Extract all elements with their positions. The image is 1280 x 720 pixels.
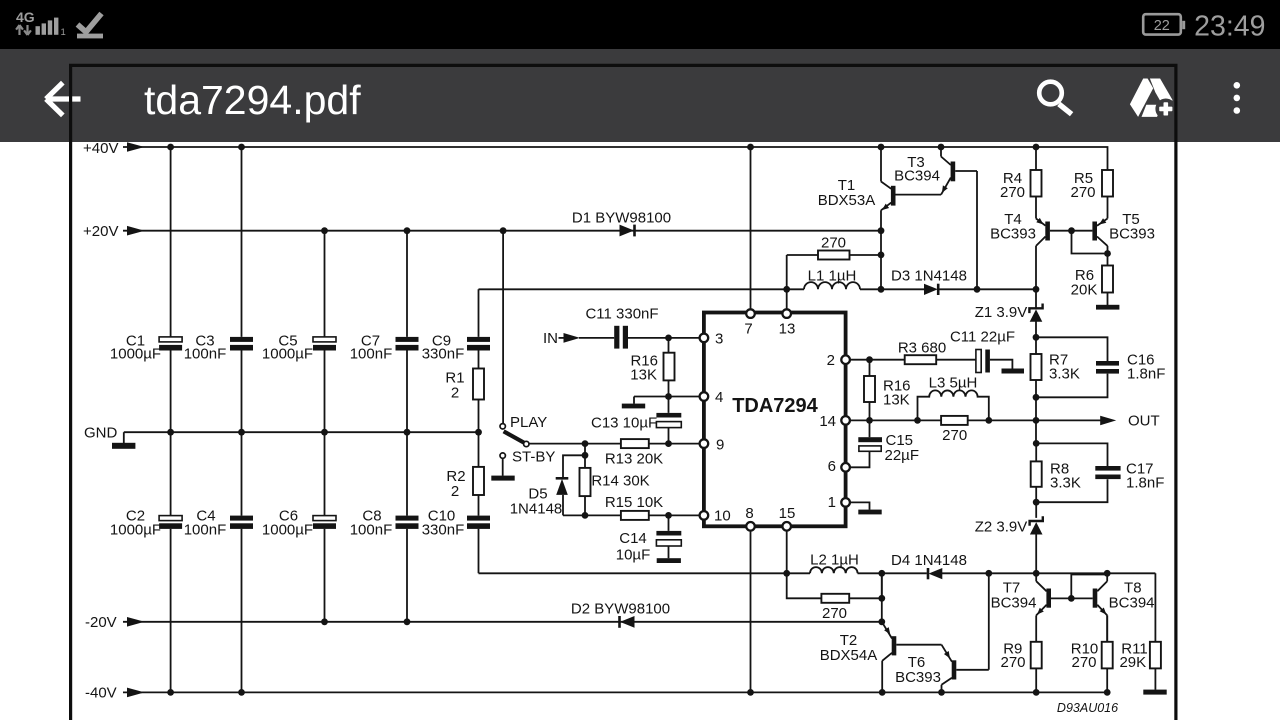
- toolbar back arrow: [46, 83, 81, 116]
- svg-text:270: 270: [1070, 184, 1095, 201]
- node out/L3 right: [985, 417, 992, 424]
- svg-text:8: 8: [745, 505, 753, 522]
- svg-text:1: 1: [61, 27, 66, 38]
- wire column R2 C10: [478, 432, 480, 573]
- svg-text:-40V: -40V: [85, 684, 117, 701]
- node D5 top: [582, 452, 589, 459]
- node +20V/C7: [404, 227, 411, 234]
- node -40V/C4: [238, 689, 245, 696]
- svg-text:D2 BYW98100: D2 BYW98100: [571, 601, 670, 618]
- svg-text:22: 22: [1154, 18, 1170, 34]
- diode D4 1N4148: [928, 568, 942, 579]
- node D3/Z1: [1033, 286, 1040, 293]
- resistor 270 top: [818, 251, 850, 260]
- svg-text:D93AU016: D93AU016: [1057, 701, 1118, 715]
- svg-text:C11 22µF: C11 22µF: [950, 329, 1015, 346]
- wire column C1: [170, 147, 172, 432]
- pin 2: [841, 355, 850, 364]
- node -20V/C6: [321, 618, 328, 625]
- pin 4: [700, 392, 709, 401]
- svg-text:D1 BYW98100: D1 BYW98100: [572, 210, 671, 227]
- pin 3: [700, 334, 709, 343]
- svg-text:9: 9: [716, 437, 724, 454]
- svg-text:6: 6: [828, 458, 836, 475]
- capacitor C15 22uF: [850, 420, 870, 467]
- svg-text:R15 10K: R15 10K: [605, 494, 663, 511]
- node out/R16: [866, 417, 873, 424]
- svg-text:2: 2: [451, 384, 459, 401]
- -20V arrow: [127, 617, 145, 627]
- wire stby line y515: [563, 514, 700, 516]
- svg-text:23:49: 23:49: [1194, 11, 1265, 43]
- pin 13: [782, 309, 791, 318]
- svg-text:100nF: 100nF: [350, 346, 393, 363]
- svg-text:C13 10µF: C13 10µF: [591, 415, 657, 432]
- wire column C8: [406, 432, 408, 622]
- svg-text:14: 14: [819, 413, 836, 430]
- toolbar: [0, 49, 1280, 142]
- node y573/pin15: [783, 570, 790, 577]
- svg-text:330nF: 330nF: [422, 346, 465, 363]
- svg-text:13: 13: [779, 320, 796, 337]
- node +40V/T1: [878, 144, 885, 151]
- resistor R1: [473, 369, 484, 400]
- node D3/T3 base: [974, 286, 981, 293]
- svg-text:10: 10: [714, 507, 731, 524]
- node -20V/T2 emitter: [878, 618, 885, 625]
- toolbar drive add icon: [1130, 79, 1176, 120]
- node T2/270: [878, 595, 885, 602]
- wire column C6: [324, 432, 326, 622]
- capacitor C16 1.8nF: [1036, 337, 1108, 397]
- wire switch feed: [502, 231, 504, 424]
- node y573/Z2: [1033, 570, 1040, 577]
- capacitor C5: [313, 337, 336, 342]
- resistor R16 13K input: [664, 353, 675, 381]
- svg-text:100nF: 100nF: [350, 521, 393, 538]
- transistor T7 BC394: [1036, 573, 1051, 642]
- node +40V/R4: [1033, 144, 1040, 151]
- svg-text:4: 4: [715, 389, 723, 406]
- schematic frame border: [69, 64, 1178, 720]
- wire pin4 line: [634, 396, 700, 398]
- transistor T1 BDX53A: [881, 147, 896, 231]
- status bar: [0, 0, 1280, 49]
- svg-text:1000µF: 1000µF: [262, 346, 313, 363]
- svg-text:BDX54A: BDX54A: [820, 647, 878, 664]
- svg-text:BDX53A: BDX53A: [818, 192, 876, 209]
- capacitor C6: [313, 516, 336, 521]
- svg-text:270: 270: [1071, 654, 1096, 671]
- svg-text:1000µF: 1000µF: [262, 521, 313, 538]
- svg-text:2: 2: [451, 483, 459, 500]
- inductor L3 5uH: [918, 390, 989, 420]
- pin 9: [700, 439, 709, 448]
- resistor R2: [473, 467, 484, 495]
- wire T7 T8 bases: [1051, 575, 1107, 599]
- svg-text:330nF: 330nF: [422, 521, 465, 538]
- node T4 base tie: [1068, 227, 1075, 234]
- resistor R5 270: [1102, 170, 1113, 197]
- node out/R7: [1033, 417, 1040, 424]
- pin 1: [841, 498, 850, 507]
- node R7/C16 bottom: [1033, 394, 1040, 401]
- capacitor C13 10uF: [668, 397, 670, 444]
- switch PLAY contact: [500, 424, 505, 429]
- diode D3 1N4148: [924, 284, 938, 295]
- wire pin7 to +40V: [750, 147, 752, 309]
- +40V arrow: [127, 142, 145, 152]
- node out/L3 left: [914, 417, 921, 424]
- zener Z2 3.9V: [1030, 516, 1043, 573]
- node +40V/T3: [938, 144, 945, 151]
- status icon signal bars: [36, 18, 59, 35]
- svg-text:3: 3: [715, 331, 723, 348]
- capacitor C10: [467, 516, 490, 521]
- resistor R3 680: [905, 355, 937, 364]
- wire R7 column: [1035, 337, 1037, 443]
- transistor T6 BC393: [942, 573, 989, 692]
- wire column C5: [324, 231, 326, 433]
- svg-text:BC393: BC393: [1109, 225, 1155, 242]
- switch lever: [504, 431, 524, 442]
- resistor R7 3.3K: [1031, 354, 1042, 380]
- node y573/T2: [878, 570, 885, 577]
- node -40V/R10: [1104, 689, 1111, 696]
- diode D2 BYW98100: [620, 616, 635, 628]
- node pin3/R16: [665, 335, 672, 342]
- wire out line: [850, 419, 1101, 421]
- node +20V/switch: [500, 227, 507, 234]
- OUT arrow: [1100, 416, 1116, 426]
- -20V rail wire: [123, 621, 882, 623]
- node pin2/R16: [866, 356, 873, 363]
- svg-text:270: 270: [1000, 654, 1025, 671]
- node T1/270: [878, 252, 885, 259]
- resistor R16 13K feedback: [869, 360, 871, 421]
- switch ST-BY contact: [500, 453, 505, 458]
- svg-text:ST-BY: ST-BY: [512, 449, 555, 466]
- svg-text:TDA7294: TDA7294: [732, 395, 818, 417]
- wire pin8 down: [750, 531, 752, 693]
- IC TDA7294 body: [704, 313, 846, 527]
- diode D5 1N4148: [556, 478, 569, 495]
- ground symbol R11: [1143, 690, 1166, 695]
- svg-text:L1 1µH: L1 1µH: [808, 268, 857, 285]
- node GND/C3: [238, 429, 245, 436]
- inductor L2 1uH: [810, 567, 858, 573]
- svg-text:10µF: 10µF: [616, 546, 651, 563]
- svg-text:R3 680: R3 680: [898, 340, 946, 357]
- svg-text:100nF: 100nF: [184, 346, 227, 363]
- transistor T3 BC394: [941, 147, 977, 289]
- node +40V/C3: [238, 144, 245, 151]
- svg-text:D4 1N4148: D4 1N4148: [891, 552, 967, 569]
- wire C14 stem: [668, 515, 670, 558]
- svg-text:100nF: 100nF: [184, 521, 227, 538]
- svg-text:4G: 4G: [16, 9, 35, 25]
- wire C11 to ground: [990, 360, 1013, 369]
- svg-text:BC394: BC394: [991, 595, 1037, 612]
- -40V arrow: [127, 688, 145, 698]
- svg-text:7: 7: [744, 320, 752, 337]
- svg-text:Z2 3.9V: Z2 3.9V: [975, 519, 1028, 536]
- +20V arrow: [127, 226, 145, 236]
- node GND/R1R2: [475, 429, 482, 436]
- wire 270 top: [787, 254, 881, 256]
- ground symbol ST-BY: [491, 476, 514, 481]
- +40V rail wire: [123, 147, 1108, 170]
- input arrow: [559, 337, 565, 339]
- node -40V/T6: [938, 689, 945, 696]
- svg-text:1N4148: 1N4148: [510, 500, 563, 517]
- inductor L1 1uH: [804, 282, 860, 289]
- svg-text:270: 270: [1000, 184, 1025, 201]
- node -40V/pin8: [747, 689, 754, 696]
- toolbar search icon: [1039, 82, 1062, 105]
- node T5 collector R6: [1104, 250, 1111, 257]
- wire R14 branch: [584, 444, 586, 516]
- svg-text:L2 1µH: L2 1µH: [810, 551, 859, 568]
- svg-text:270: 270: [821, 235, 846, 252]
- svg-text:3.3K: 3.3K: [1049, 366, 1080, 383]
- wire T1 base to T3 emitter: [896, 194, 942, 196]
- svg-text:BC394: BC394: [894, 167, 940, 184]
- node y573/T8: [1104, 570, 1111, 577]
- svg-text:22µF: 22µF: [885, 447, 920, 464]
- resistor R9 270: [1031, 642, 1042, 669]
- status icon checkmark download: [78, 14, 102, 33]
- wire pin13 up: [786, 255, 788, 309]
- node GND/C1: [167, 429, 174, 436]
- wire bootstrap line y289: [479, 288, 1037, 290]
- node R8 bottom: [1033, 499, 1040, 506]
- GND rail wire: [124, 431, 479, 433]
- capacitor C9: [467, 337, 490, 342]
- resistor 270 zobel: [941, 416, 968, 425]
- node y573/T6 base: [985, 570, 992, 577]
- svg-text:BC394: BC394: [1109, 595, 1155, 612]
- capacitor C17 1.8nF: [1036, 443, 1107, 502]
- ground symbol at GND label: [123, 432, 125, 443]
- ground symbol C14: [657, 558, 681, 563]
- +20V rail wire: [123, 230, 881, 232]
- wire ST-BY to ground: [502, 458, 504, 476]
- capacitor C8: [396, 516, 419, 521]
- node +20V/C5: [321, 227, 328, 234]
- svg-text:1.8nF: 1.8nF: [1127, 366, 1165, 383]
- node -20V/C8: [404, 618, 411, 625]
- wire D5 branch: [563, 455, 585, 515]
- ground symbol pin4: [633, 397, 635, 404]
- svg-text:13K: 13K: [630, 367, 657, 384]
- resistor R4 270: [1035, 147, 1037, 219]
- ground symbol C11: [1002, 369, 1025, 374]
- toolbar overflow menu dots: [1234, 82, 1241, 114]
- svg-text:BC393: BC393: [990, 225, 1036, 242]
- svg-text:BC393: BC393: [895, 669, 941, 686]
- svg-text:29K: 29K: [1119, 654, 1146, 671]
- node bootstrap/pin13: [783, 286, 790, 293]
- resistor R13 20K: [621, 439, 649, 448]
- node +40V/pin7: [747, 144, 754, 151]
- wire column C7: [406, 231, 408, 433]
- svg-text:2: 2: [827, 352, 835, 369]
- node stby/C14: [665, 512, 672, 519]
- wire pin15 down: [786, 531, 788, 574]
- svg-text:15: 15: [779, 505, 796, 522]
- capacitor C4: [230, 516, 253, 521]
- svg-text:PLAY: PLAY: [510, 414, 547, 431]
- wire T4 T5 bases: [1050, 231, 1108, 254]
- svg-text:270: 270: [822, 605, 847, 622]
- pin 8: [746, 522, 755, 531]
- capacitor C7: [396, 337, 419, 342]
- node GND/C7: [404, 429, 411, 436]
- status icon data arrows: [16, 25, 31, 35]
- svg-text:Z1 3.9V: Z1 3.9V: [975, 304, 1028, 321]
- wire T2 column: [881, 573, 883, 622]
- node GND/C5: [321, 429, 328, 436]
- resistor R8 3.3K: [1031, 461, 1042, 486]
- resistor R14 30K: [580, 468, 591, 496]
- svg-text:+20V: +20V: [83, 223, 118, 240]
- capacitor C2: [159, 516, 182, 521]
- node stby/R14: [582, 512, 589, 519]
- svg-text:R14 30K: R14 30K: [591, 472, 649, 489]
- svg-text:+40V: +40V: [83, 140, 118, 157]
- wire column C3: [241, 147, 243, 432]
- resistor R6 20K: [1107, 254, 1109, 306]
- node bootstrap/T1: [878, 286, 885, 293]
- wire mute line y443: [529, 443, 700, 445]
- pin 15: [782, 522, 791, 531]
- wire pin2 line: [850, 359, 976, 361]
- node +20V/T1 emitter: [878, 227, 885, 234]
- node -40V/C2: [167, 689, 174, 696]
- svg-text:D3 1N4148: D3 1N4148: [891, 268, 967, 285]
- node T7 base tie: [1068, 595, 1075, 602]
- node -40V/R9: [1033, 689, 1040, 696]
- svg-text:3.3K: 3.3K: [1050, 475, 1081, 492]
- capacitor C14 10uF: [656, 531, 681, 536]
- svg-text:1000µF: 1000µF: [110, 346, 161, 363]
- transistor T2 BDX54A: [882, 622, 897, 693]
- wire R8 column: [1035, 443, 1037, 518]
- node -40V/T2: [879, 689, 886, 696]
- svg-text:tda7294.pdf: tda7294.pdf: [144, 77, 361, 123]
- wire pin1 to ground: [850, 502, 870, 509]
- pin 10: [700, 511, 709, 520]
- diode D1 BYW98100: [620, 225, 635, 237]
- wire column C9 R1: [478, 289, 480, 432]
- svg-text:C14: C14: [619, 530, 647, 547]
- svg-text:GND: GND: [84, 424, 118, 441]
- svg-text:1: 1: [828, 494, 836, 511]
- wire column C2: [170, 432, 172, 692]
- ground symbol R6: [1096, 305, 1119, 310]
- svg-text:270: 270: [942, 427, 967, 444]
- svg-text:13K: 13K: [883, 391, 910, 408]
- wire R16 input stems: [668, 338, 670, 397]
- capacitor C11 330nF: [614, 326, 619, 349]
- svg-text:1.8nF: 1.8nF: [1126, 475, 1164, 492]
- wire T1 emitter junction column: [880, 231, 882, 290]
- wire C11 to pin3: [628, 337, 700, 339]
- svg-text:-20V: -20V: [85, 614, 117, 631]
- node R8 top: [1033, 440, 1040, 447]
- svg-text:R13 20K: R13 20K: [605, 451, 663, 468]
- resistor R11 29K: [1150, 642, 1161, 669]
- battery icon with 22: [1143, 14, 1181, 34]
- ground symbol pin1: [858, 510, 881, 515]
- node mute/R14: [582, 440, 589, 447]
- node Z1/C16 top: [1033, 334, 1040, 341]
- svg-text:L3 5µH: L3 5µH: [929, 374, 978, 391]
- svg-text:1000µF: 1000µF: [110, 521, 161, 538]
- resistor R10 270: [1102, 642, 1113, 669]
- pin 6: [841, 463, 850, 472]
- svg-text:OUT: OUT: [1128, 412, 1160, 429]
- wire T2 base to T6 emitter: [896, 645, 952, 662]
- wire rail switch line y573: [479, 572, 1156, 574]
- transistor T8 BC394: [1093, 573, 1108, 642]
- wire input to C11: [579, 337, 614, 339]
- transistor T5 BC393: [1092, 218, 1107, 253]
- svg-text:20K: 20K: [1071, 281, 1098, 298]
- svg-text:IN: IN: [543, 330, 558, 347]
- wire column C4: [241, 432, 243, 692]
- node pin4/C13: [665, 393, 672, 400]
- capacitor C11 22uF: [976, 350, 981, 373]
- pin 7: [746, 309, 755, 318]
- -40V rail wire: [123, 691, 1107, 693]
- zener Z1 3.9V: [1029, 289, 1042, 337]
- pin 14: [841, 416, 850, 425]
- capacitor C1: [159, 337, 182, 342]
- transistor T4 BC393: [1036, 218, 1050, 289]
- node +40V/C1: [167, 144, 174, 151]
- capacitor C3: [230, 337, 253, 342]
- node mute/C13: [665, 440, 672, 447]
- svg-text:C11 330nF: C11 330nF: [585, 306, 658, 323]
- resistor 270 lower: [787, 573, 882, 598]
- resistor R15 10K: [621, 511, 649, 520]
